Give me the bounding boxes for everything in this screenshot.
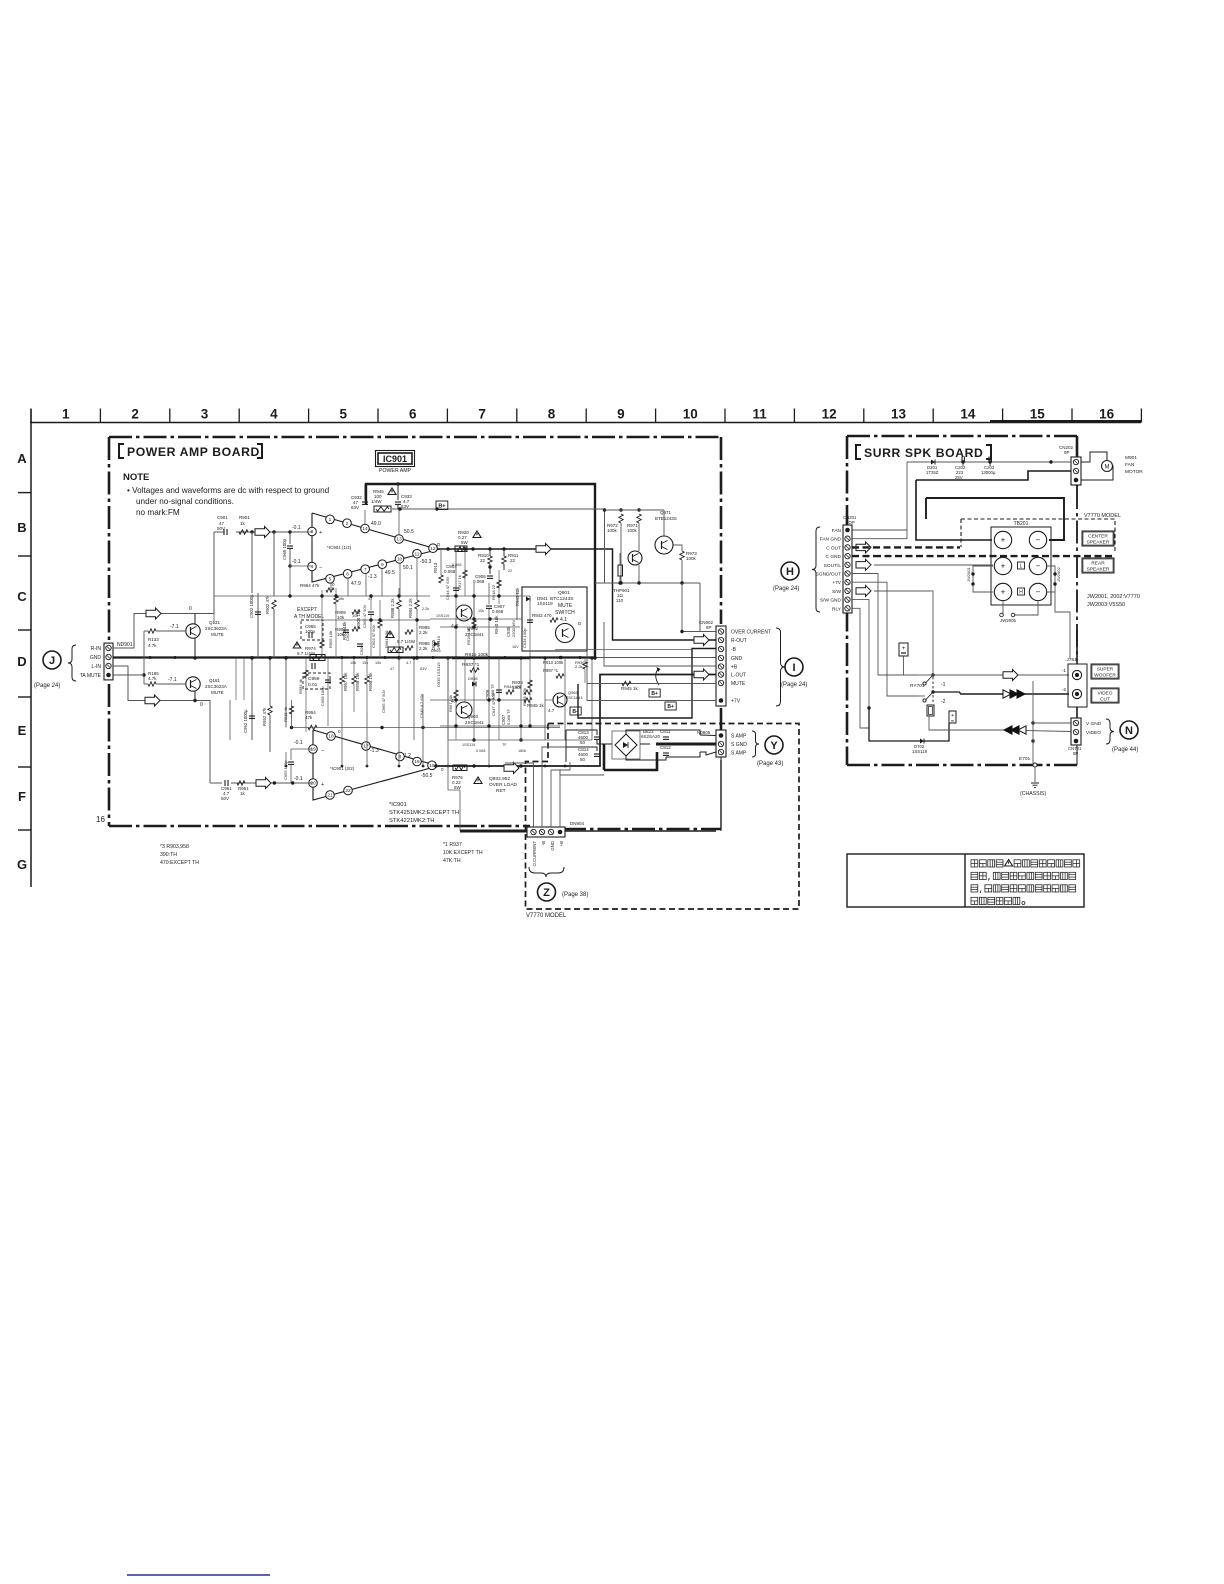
svg-text:14: 14 bbox=[362, 526, 368, 532]
svg-text:SURR SPK BOARD: SURR SPK BOARD bbox=[864, 446, 983, 460]
svg-text:O.CURRENT: O.CURRENT bbox=[532, 841, 537, 867]
svg-text:50.5: 50.5 bbox=[404, 529, 414, 535]
svg-text:2.2k: 2.2k bbox=[419, 630, 428, 635]
svg-text:N: N bbox=[1125, 725, 1133, 737]
svg-text:NOTE: NOTE bbox=[123, 472, 149, 483]
svg-text:2: 2 bbox=[346, 521, 349, 527]
svg-text:9: 9 bbox=[617, 407, 625, 422]
svg-text:16V: 16V bbox=[512, 645, 519, 649]
svg-text:C952 1000µ: C952 1000µ bbox=[243, 709, 248, 733]
svg-text:D905: D905 bbox=[431, 648, 441, 653]
svg-text:4.1: 4.1 bbox=[560, 617, 567, 623]
svg-text:1: 1 bbox=[329, 517, 332, 523]
svg-text:−: − bbox=[321, 748, 324, 754]
svg-text:15: 15 bbox=[429, 763, 435, 769]
svg-text:R984 2.2k: R984 2.2k bbox=[408, 598, 413, 618]
svg-text:C965 100p: C965 100p bbox=[282, 538, 287, 560]
svg-text:Q901: Q901 bbox=[558, 590, 570, 596]
svg-text:TF: TF bbox=[502, 743, 507, 747]
svg-text:20: 20 bbox=[310, 781, 316, 787]
svg-text:47K:TH: 47K:TH bbox=[443, 858, 461, 864]
svg-text:100k: 100k bbox=[686, 556, 697, 561]
svg-text:(CHASSIS): (CHASSIS) bbox=[1020, 791, 1047, 797]
svg-text:13000µ: 13000µ bbox=[981, 470, 996, 475]
svg-text:6.7 1/4W: 6.7 1/4W bbox=[297, 651, 316, 656]
svg-text:JW2003:V5S50: JW2003:V5S50 bbox=[1087, 602, 1125, 608]
svg-text:0.068: 0.068 bbox=[473, 579, 485, 584]
svg-text:14: 14 bbox=[960, 407, 976, 422]
svg-text:+B: +B bbox=[731, 665, 738, 671]
svg-text:2SC3623A: 2SC3623A bbox=[205, 684, 227, 689]
svg-text:OVER CURRENT: OVER CURRENT bbox=[731, 630, 771, 636]
svg-text:R945 1k: R945 1k bbox=[621, 686, 639, 691]
svg-text:POWER AMP BOARD: POWER AMP BOARD bbox=[127, 445, 260, 459]
svg-text:0: 0 bbox=[189, 606, 192, 612]
svg-text:-1: -1 bbox=[941, 682, 946, 688]
svg-text:-50.5: -50.5 bbox=[421, 773, 433, 779]
svg-text:10k: 10k bbox=[478, 609, 484, 613]
svg-text:D936: D936 bbox=[468, 676, 478, 681]
svg-text:R902 47k: R902 47k bbox=[265, 595, 270, 614]
svg-text:SUPER: SUPER bbox=[1097, 667, 1114, 673]
svg-text:22: 22 bbox=[480, 558, 486, 563]
svg-text:I: I bbox=[792, 662, 795, 674]
svg-text:J: J bbox=[49, 655, 55, 667]
svg-text:150: 150 bbox=[386, 631, 392, 635]
svg-text:C902 1000µ: C902 1000µ bbox=[249, 594, 254, 618]
svg-text:CUT: CUT bbox=[1100, 697, 1110, 703]
svg-text:15k: 15k bbox=[375, 661, 381, 665]
svg-text:-7.1: -7.1 bbox=[170, 624, 179, 630]
svg-text:100k: 100k bbox=[627, 528, 638, 533]
svg-text:E701: E701 bbox=[1019, 756, 1031, 762]
svg-text:22: 22 bbox=[345, 788, 351, 794]
svg-text:S/W: S/W bbox=[832, 589, 842, 595]
svg-text:B+: B+ bbox=[667, 704, 674, 710]
svg-text:10: 10 bbox=[397, 557, 403, 563]
svg-text:18: 18 bbox=[328, 734, 334, 740]
svg-text:390:TH: 390:TH bbox=[160, 852, 177, 858]
svg-text:4.7: 4.7 bbox=[548, 708, 555, 713]
svg-text:+B: +B bbox=[559, 841, 564, 847]
svg-text:B+: B+ bbox=[438, 503, 445, 509]
svg-text:V7770 MODEL: V7770 MODEL bbox=[1084, 513, 1121, 519]
svg-text:D: D bbox=[17, 654, 26, 669]
svg-text:JW2001: JW2001 bbox=[966, 567, 971, 582]
svg-text:FAN: FAN bbox=[832, 528, 842, 534]
svg-text:R918 22: R918 22 bbox=[491, 584, 496, 600]
svg-text:10: 10 bbox=[683, 407, 698, 422]
svg-text:−: − bbox=[319, 565, 322, 571]
svg-text:R913: R913 bbox=[433, 562, 438, 573]
svg-text:470:EXCEPT TH: 470:EXCEPT TH bbox=[160, 860, 199, 866]
svg-text:17: 17 bbox=[363, 744, 369, 750]
svg-text:V GND: V GND bbox=[1086, 721, 1102, 727]
svg-text:H: H bbox=[786, 566, 794, 578]
svg-text:1: 1 bbox=[62, 407, 70, 422]
svg-text:7: 7 bbox=[364, 567, 367, 573]
svg-text:15k: 15k bbox=[362, 661, 368, 665]
svg-text:V7770 MODEL: V7770 MODEL bbox=[526, 913, 567, 919]
svg-text:VIDEO: VIDEO bbox=[1098, 691, 1113, 697]
svg-text:−: − bbox=[1036, 536, 1041, 545]
svg-text:-0.1: -0.1 bbox=[292, 559, 301, 565]
svg-text:1SS119: 1SS119 bbox=[912, 749, 928, 754]
svg-text:0.01: 0.01 bbox=[308, 682, 318, 688]
svg-text:R967 10k: R967 10k bbox=[448, 695, 453, 712]
svg-text:47: 47 bbox=[368, 597, 372, 601]
svg-text:REAR: REAR bbox=[1091, 561, 1105, 567]
svg-text:R952 47k: R952 47k bbox=[262, 707, 267, 726]
svg-text:*1 R937: *1 R937 bbox=[443, 842, 462, 848]
svg-text:S AMP: S AMP bbox=[731, 751, 747, 757]
svg-text:-0.1: -0.1 bbox=[294, 740, 303, 746]
svg-text:-0.1: -0.1 bbox=[294, 776, 303, 782]
svg-text:1SS119: 1SS119 bbox=[537, 601, 553, 606]
svg-text:9P: 9P bbox=[1064, 450, 1070, 455]
svg-text:MUTE: MUTE bbox=[211, 632, 224, 637]
svg-text:6.7 1/4W: 6.7 1/4W bbox=[397, 639, 416, 644]
svg-text:Q971: Q971 bbox=[660, 510, 672, 515]
svg-text:RLY: RLY bbox=[832, 606, 842, 612]
svg-text:16: 16 bbox=[414, 759, 420, 765]
svg-text:C GND: C GND bbox=[826, 554, 842, 560]
svg-text:0.068 TF: 0.068 TF bbox=[506, 709, 511, 725]
svg-text:R908 16k: R908 16k bbox=[356, 609, 361, 628]
svg-text:-2: -2 bbox=[1062, 687, 1067, 693]
svg-text:EXCEPT: EXCEPT bbox=[297, 607, 317, 613]
svg-text:STK4221MK2:TH: STK4221MK2:TH bbox=[389, 818, 434, 824]
svg-text:-B: -B bbox=[541, 841, 546, 845]
svg-text:MUTE: MUTE bbox=[211, 690, 224, 695]
svg-text:CENTER: CENTER bbox=[1088, 534, 1108, 540]
svg-text:2SC1841: 2SC1841 bbox=[465, 720, 484, 725]
svg-text:C958 100p: C958 100p bbox=[320, 686, 325, 706]
svg-text:VIDEO: VIDEO bbox=[1086, 730, 1101, 736]
svg-text:C905: C905 bbox=[345, 631, 350, 641]
svg-text:+7V: +7V bbox=[832, 580, 841, 586]
svg-text:8P: 8P bbox=[706, 625, 712, 630]
svg-text:TB201: TB201 bbox=[1014, 521, 1029, 527]
svg-text:47: 47 bbox=[390, 667, 394, 671]
svg-text:-1: -1 bbox=[1062, 668, 1067, 674]
svg-text:S/W GND: S/W GND bbox=[820, 598, 842, 604]
svg-text:−: − bbox=[1036, 562, 1041, 571]
svg-text:*IC901: *IC901 bbox=[389, 802, 407, 808]
svg-text:1k: 1k bbox=[240, 521, 246, 526]
svg-text:+: + bbox=[902, 646, 906, 652]
svg-text:SPEAKER: SPEAKER bbox=[1087, 540, 1110, 546]
svg-text:Q181: Q181 bbox=[209, 678, 221, 683]
svg-text:2200 16V: 2200 16V bbox=[511, 620, 516, 637]
svg-text:C955 100p: C955 100p bbox=[283, 760, 288, 780]
svg-text:5W: 5W bbox=[454, 785, 462, 790]
svg-text:(Page 24): (Page 24) bbox=[773, 586, 799, 592]
svg-text:-1.3: -1.3 bbox=[368, 574, 377, 580]
svg-text:Q932,952: Q932,952 bbox=[489, 776, 510, 782]
svg-text:R988 2.2k: R988 2.2k bbox=[390, 598, 395, 618]
svg-text:13: 13 bbox=[396, 537, 402, 543]
svg-text:*IC901 (1/2): *IC901 (1/2) bbox=[327, 545, 352, 550]
svg-text:R987 *1: R987 *1 bbox=[543, 668, 559, 673]
svg-text:11: 11 bbox=[753, 407, 768, 422]
svg-text:C947 47 50V: C947 47 50V bbox=[491, 692, 496, 716]
svg-text:12: 12 bbox=[822, 407, 837, 422]
svg-text:C OUT: C OUT bbox=[826, 545, 841, 551]
svg-text:100p: 100p bbox=[305, 629, 316, 634]
svg-text:R968 2.2k: R968 2.2k bbox=[522, 688, 527, 706]
svg-text:JW2002: JW2002 bbox=[1056, 567, 1061, 582]
svg-text:0.068: 0.068 bbox=[492, 609, 504, 614]
svg-text:22: 22 bbox=[510, 558, 516, 563]
svg-text:2SC1841: 2SC1841 bbox=[566, 695, 583, 700]
svg-text:13: 13 bbox=[891, 407, 907, 422]
svg-text:MUTE: MUTE bbox=[558, 603, 573, 609]
svg-text:63V: 63V bbox=[401, 504, 409, 509]
svg-text:R942 470: R942 470 bbox=[532, 613, 552, 618]
svg-text:D935 1SS119: D935 1SS119 bbox=[436, 662, 441, 687]
svg-text:1SS119: 1SS119 bbox=[436, 614, 449, 618]
svg-text:Q903: Q903 bbox=[467, 714, 479, 719]
svg-text:6: 6 bbox=[409, 407, 417, 422]
svg-text:C965 47 50V: C965 47 50V bbox=[381, 689, 386, 713]
svg-text:• Voltages and waveforms are d: • Voltages and waveforms are dc with res… bbox=[127, 486, 330, 495]
svg-text:N0805: N0805 bbox=[697, 730, 711, 735]
svg-text:R901: R901 bbox=[239, 515, 250, 520]
svg-text:R941 10k: R941 10k bbox=[515, 587, 520, 606]
svg-text:C903 47 50V: C903 47 50V bbox=[371, 624, 376, 648]
svg-text:.J781: .J781 bbox=[1065, 657, 1077, 663]
svg-text:A TH MODEL: A TH MODEL bbox=[294, 614, 324, 620]
svg-text:B+: B+ bbox=[651, 691, 658, 697]
svg-text:49.0: 49.0 bbox=[371, 521, 381, 527]
svg-text:POWER AMP: POWER AMP bbox=[379, 468, 412, 474]
svg-text:C812: C812 bbox=[660, 745, 671, 750]
svg-text:F: F bbox=[18, 789, 26, 804]
svg-text:R944 470: R944 470 bbox=[504, 684, 522, 689]
svg-text:Y: Y bbox=[770, 740, 778, 752]
svg-text:+: + bbox=[319, 530, 322, 536]
svg-text:−: − bbox=[1036, 588, 1041, 597]
svg-text:0: 0 bbox=[200, 702, 203, 708]
svg-text:R-IN: R-IN bbox=[91, 646, 102, 652]
svg-text:TOP: TOP bbox=[846, 520, 855, 525]
svg-text:A: A bbox=[17, 451, 27, 466]
svg-text:no mark:FM: no mark:FM bbox=[136, 508, 180, 517]
svg-text:16: 16 bbox=[1099, 407, 1115, 422]
svg-text:15: 15 bbox=[1030, 407, 1046, 422]
svg-text:50: 50 bbox=[580, 740, 586, 745]
svg-text:50: 50 bbox=[580, 757, 586, 762]
svg-text:R916 10k: R916 10k bbox=[466, 628, 471, 645]
svg-text:M901: M901 bbox=[1125, 455, 1137, 461]
svg-text:0.068: 0.068 bbox=[452, 563, 462, 567]
svg-text:GND: GND bbox=[731, 656, 743, 662]
svg-text:SWITCH: SWITCH bbox=[555, 610, 575, 616]
svg-text:C934 100p: C934 100p bbox=[522, 628, 527, 648]
svg-text:50.1: 50.1 bbox=[403, 565, 413, 571]
svg-text:4.7k: 4.7k bbox=[148, 643, 157, 648]
svg-text:E: E bbox=[18, 723, 27, 738]
svg-text:GND: GND bbox=[550, 841, 555, 851]
svg-text:6: 6 bbox=[346, 572, 349, 578]
svg-text:-1.3: -1.3 bbox=[370, 748, 379, 754]
svg-text:2SC3623A: 2SC3623A bbox=[205, 626, 227, 631]
svg-text:C: C bbox=[17, 589, 27, 604]
svg-text:R945 1k: R945 1k bbox=[527, 703, 545, 708]
svg-text:C944 47 63V: C944 47 63V bbox=[445, 576, 450, 600]
svg-text:5: 5 bbox=[340, 407, 348, 422]
svg-text:RET: RET bbox=[496, 788, 506, 794]
svg-text:2: 2 bbox=[131, 407, 139, 422]
svg-text:MOTOR: MOTOR bbox=[1125, 469, 1143, 475]
svg-text:WOOFER: WOOFER bbox=[1094, 673, 1116, 679]
svg-text:8: 8 bbox=[548, 407, 556, 422]
svg-text:Z: Z bbox=[543, 887, 550, 899]
svg-text:100k: 100k bbox=[607, 528, 618, 533]
svg-text:R964 47k: R964 47k bbox=[300, 583, 320, 588]
svg-text:1/4W: 1/4W bbox=[371, 499, 382, 504]
svg-text:50V: 50V bbox=[221, 796, 229, 801]
svg-text:(Page 24): (Page 24) bbox=[781, 682, 807, 688]
svg-text:180k: 180k bbox=[518, 749, 526, 753]
svg-text:8P: 8P bbox=[1073, 751, 1078, 756]
svg-text:C905 47 50V: C905 47 50V bbox=[362, 604, 367, 628]
svg-text:5W: 5W bbox=[461, 540, 469, 545]
svg-text:47.9: 47.9 bbox=[351, 581, 361, 587]
svg-text:49.5: 49.5 bbox=[385, 570, 395, 576]
svg-text:(Page 38): (Page 38) bbox=[562, 892, 588, 898]
svg-text:S GND: S GND bbox=[731, 742, 747, 748]
svg-text:C959: C959 bbox=[308, 676, 320, 682]
svg-text:10k: 10k bbox=[337, 615, 345, 620]
svg-text:Q131: Q131 bbox=[209, 620, 221, 625]
svg-text:10k: 10k bbox=[352, 614, 358, 618]
svg-text:+: + bbox=[1001, 562, 1006, 571]
svg-text:R913 100k: R913 100k bbox=[543, 660, 564, 665]
svg-text:6S2SA20: 6S2SA20 bbox=[641, 734, 661, 739]
svg-text:B: B bbox=[17, 520, 26, 535]
svg-text:12: 12 bbox=[430, 546, 436, 552]
svg-text:4.7k: 4.7k bbox=[148, 676, 157, 681]
svg-text:R940 10k: R940 10k bbox=[494, 615, 499, 634]
svg-text:FAN GND: FAN GND bbox=[820, 537, 842, 543]
svg-text:under no-signal conditions.: under no-signal conditions. bbox=[136, 497, 234, 506]
svg-text:-2: -2 bbox=[941, 699, 946, 705]
svg-text:11: 11 bbox=[415, 551, 420, 557]
svg-text:MUTE: MUTE bbox=[731, 681, 746, 687]
svg-text:ND901: ND901 bbox=[117, 642, 133, 648]
svg-text:R915 4k: R915 4k bbox=[283, 707, 288, 722]
svg-text:1SS119: 1SS119 bbox=[462, 743, 475, 747]
svg-text:-7.1: -7.1 bbox=[168, 677, 177, 683]
svg-text:3: 3 bbox=[201, 407, 209, 422]
svg-text:TA MUTE: TA MUTE bbox=[80, 673, 102, 679]
svg-text:H: H bbox=[1019, 590, 1023, 596]
svg-text:GND: GND bbox=[90, 655, 102, 661]
svg-text:16k: 16k bbox=[338, 597, 344, 601]
svg-text:SOUT/L: SOUT/L bbox=[824, 563, 842, 569]
svg-text:+: + bbox=[1001, 536, 1006, 545]
svg-text:0.068: 0.068 bbox=[444, 569, 456, 574]
svg-text:21: 21 bbox=[327, 793, 333, 799]
svg-text:-B: -B bbox=[731, 647, 737, 653]
svg-text:2.2k: 2.2k bbox=[575, 664, 583, 669]
svg-text:IC901: IC901 bbox=[383, 454, 407, 464]
svg-text:16: 16 bbox=[96, 815, 105, 824]
svg-text:R955 4k: R955 4k bbox=[298, 679, 303, 694]
svg-text:+: + bbox=[321, 782, 324, 788]
svg-text:STK4251MK2:EXCEPT TH: STK4251MK2:EXCEPT TH bbox=[389, 810, 459, 816]
svg-text:C906: C906 bbox=[359, 645, 364, 655]
svg-text:4: 4 bbox=[311, 564, 314, 570]
svg-text:R-OUT: R-OUT bbox=[731, 638, 747, 644]
svg-text:7: 7 bbox=[478, 407, 486, 422]
svg-text:63V: 63V bbox=[351, 505, 359, 510]
svg-text:JW2005: JW2005 bbox=[1000, 618, 1016, 623]
svg-text:+7V: +7V bbox=[731, 699, 741, 705]
svg-text:SPEAKER: SPEAKER bbox=[1087, 567, 1110, 573]
svg-text:JW2001, 2002:V7770: JW2001, 2002:V7770 bbox=[1087, 594, 1140, 600]
svg-text:4: 4 bbox=[270, 407, 278, 422]
svg-text:BTC1243S: BTC1243S bbox=[550, 596, 573, 602]
svg-text:L: L bbox=[1020, 564, 1023, 570]
svg-text:OVER LOAD: OVER LOAD bbox=[489, 782, 518, 788]
svg-text:22: 22 bbox=[508, 569, 512, 573]
svg-text:50V: 50V bbox=[217, 526, 225, 531]
svg-text:C901: C901 bbox=[217, 515, 228, 520]
svg-text:B−: B− bbox=[572, 709, 579, 715]
svg-text:G: G bbox=[17, 857, 27, 872]
svg-text:63V: 63V bbox=[420, 667, 427, 671]
svg-text:4.7: 4.7 bbox=[406, 661, 411, 665]
svg-text:DN904: DN904 bbox=[570, 821, 585, 826]
svg-text:+: + bbox=[1001, 588, 1006, 597]
svg-text:R917 1k: R917 1k bbox=[457, 575, 462, 590]
svg-text:19: 19 bbox=[310, 747, 316, 753]
svg-text:1k: 1k bbox=[240, 791, 246, 796]
svg-text:L-IN: L-IN bbox=[92, 664, 102, 670]
svg-text:15k: 15k bbox=[350, 661, 356, 665]
svg-text:S AMP: S AMP bbox=[731, 734, 747, 740]
svg-text:0.068: 0.068 bbox=[476, 749, 486, 753]
svg-text:1T25Z: 1T25Z bbox=[926, 470, 939, 475]
svg-text:FAN: FAN bbox=[1125, 462, 1135, 468]
svg-text:(Page 44): (Page 44) bbox=[1112, 747, 1138, 753]
svg-text:(Page 24): (Page 24) bbox=[34, 683, 60, 689]
svg-text:*3 R903,958: *3 R903,958 bbox=[160, 844, 189, 850]
svg-text:L-OUT: L-OUT bbox=[731, 673, 746, 679]
svg-text:9: 9 bbox=[381, 562, 384, 568]
svg-text:2.2k: 2.2k bbox=[422, 607, 429, 611]
svg-text:SGND/OUT: SGND/OUT bbox=[816, 572, 841, 578]
svg-text:2.2k: 2.2k bbox=[419, 646, 428, 651]
svg-text:10K:EXCEPT TH: 10K:EXCEPT TH bbox=[443, 850, 483, 856]
svg-text:(Page 43): (Page 43) bbox=[757, 761, 783, 767]
svg-text:M: M bbox=[1105, 465, 1110, 471]
svg-text:-0.1: -0.1 bbox=[292, 525, 301, 531]
svg-text:110: 110 bbox=[616, 598, 624, 603]
svg-text:R133: R133 bbox=[148, 637, 159, 642]
svg-text:BTE1243S: BTE1243S bbox=[655, 516, 677, 521]
svg-text:1.2: 1.2 bbox=[404, 753, 411, 759]
svg-text:-50.3: -50.3 bbox=[420, 559, 432, 565]
svg-text:R905 10k: R905 10k bbox=[328, 631, 333, 648]
